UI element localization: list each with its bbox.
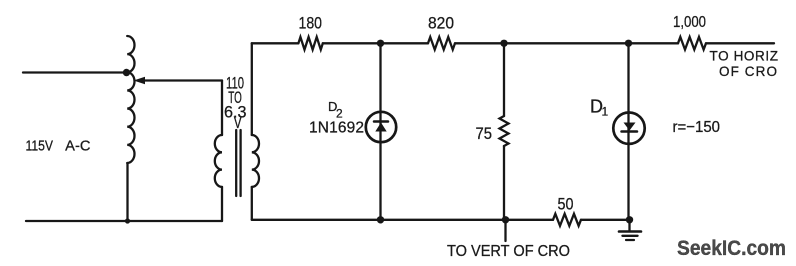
- resistor R2 820: [428, 37, 455, 50]
- label D2: [328, 99, 343, 121]
- wire top rail segment 3: [455, 42, 678, 44]
- node junction top D2: [377, 40, 384, 47]
- node junction top 75: [500, 40, 507, 47]
- wire transformer primary top lead: [221, 81, 223, 136]
- svg-text:50: 50: [558, 196, 574, 214]
- wire top rail output segment: [706, 42, 774, 44]
- ground: [619, 220, 641, 240]
- label D1: [590, 97, 609, 119]
- wire transformer primary bottom lead: [221, 187, 223, 221]
- svg-text:2: 2: [336, 107, 343, 121]
- resistor R4 75: [500, 116, 509, 146]
- wire tap arrow line: [143, 79, 222, 81]
- label 110 TO 6.3 V: [224, 75, 247, 133]
- transformer T2 primary winding: [215, 135, 222, 187]
- resistor R5 50: [553, 214, 581, 226]
- diode D1 circle: [613, 113, 644, 144]
- wire bottom rail right: [581, 219, 630, 221]
- svg-text:OF CRO: OF CRO: [719, 64, 777, 79]
- svg-text:TO VERT OF CRO: TO VERT OF CRO: [447, 243, 570, 260]
- wire top-left AC input: [23, 71, 126, 73]
- svg-text:r=−150: r=−150: [673, 119, 721, 136]
- node junction bottom D1 / ground: [626, 216, 633, 223]
- svg-text:TO HORIZ: TO HORIZ: [710, 48, 779, 63]
- wire 75 branch upper: [503, 43, 505, 116]
- wire 75 branch lower: [503, 146, 505, 220]
- variac autotransformer winding T1: [127, 36, 134, 163]
- wire transformer secondary top lead: [251, 43, 253, 135]
- wire top rail segment 1: [252, 42, 299, 44]
- resistor R1 180: [298, 37, 322, 50]
- svg-text:820: 820: [428, 15, 454, 33]
- svg-text:SeekIC.com: SeekIC.com: [677, 236, 786, 260]
- svg-text:V: V: [234, 114, 242, 132]
- wire variac bottom lead: [126, 163, 128, 221]
- svg-text:1,000: 1,000: [673, 14, 706, 31]
- diode D2 symbol: [374, 122, 388, 132]
- node tap junction dot: [123, 69, 130, 76]
- node junction bottom 75 / vert tap: [502, 216, 509, 223]
- wire top rail segment 2: [323, 42, 428, 44]
- diode D2 circle: [366, 112, 396, 142]
- resistor R3 1,000: [678, 37, 706, 50]
- svg-text:1: 1: [602, 104, 609, 118]
- node junction bottom D2: [377, 216, 384, 223]
- wire bottom rail left: [252, 219, 553, 221]
- wire transformer secondary bottom lead: [251, 187, 253, 220]
- wire vert CRO stub: [504, 220, 506, 241]
- wire bottom-left AC return: [26, 220, 222, 222]
- svg-text:A-C: A-C: [65, 139, 90, 155]
- svg-text:180: 180: [299, 14, 323, 33]
- label 115V A-C: [26, 139, 91, 155]
- svg-text:115V: 115V: [26, 139, 54, 155]
- arrowhead of variac tap: [134, 77, 146, 85]
- wire D2 branch: [379, 43, 381, 220]
- diode D1 symbol: [622, 123, 638, 132]
- transformer T2 secondary winding: [252, 135, 259, 187]
- node junction top D1: [625, 40, 632, 47]
- node variac bottom junction: [125, 218, 130, 223]
- svg-text:1N1692: 1N1692: [309, 120, 364, 137]
- svg-text:75: 75: [476, 125, 493, 143]
- wire D1 branch: [627, 43, 629, 220]
- transformer T2 core: [236, 130, 240, 196]
